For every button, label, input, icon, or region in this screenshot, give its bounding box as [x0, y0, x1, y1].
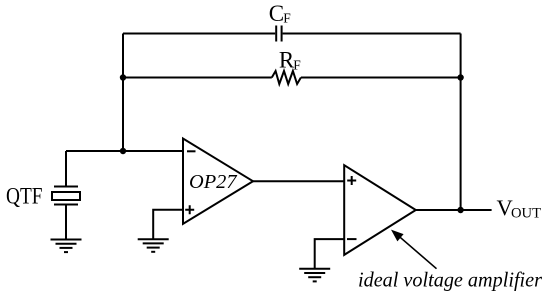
label VOUT	[497, 195, 542, 222]
arrow head	[391, 230, 404, 242]
wire: left feedback vertical	[122, 34, 124, 152]
node junction dot (right, Rf)	[457, 74, 463, 80]
wire: top feedback wire right segment (Cf branch)	[283, 33, 461, 35]
svg-text:OUT: OUT	[511, 205, 541, 221]
wire: QTF top lead	[65, 151, 67, 187]
wire: top feedback wire left segment (Cf branch)	[123, 33, 275, 35]
svg-text:ideal voltage amplifier: ideal voltage amplifier	[358, 268, 543, 292]
ground (amplifier minus input)	[299, 269, 330, 282]
node junction dot (left, Rf)	[120, 74, 126, 80]
crystal QTF top plate	[54, 186, 78, 188]
ground (below QTF)	[51, 240, 82, 253]
wire: Rf branch left segment	[123, 77, 272, 79]
svg-text:F: F	[283, 10, 291, 25]
svg-text:F: F	[293, 57, 301, 72]
op-amp U1 OP27 triangle	[183, 139, 253, 224]
amplifier plus input sign	[347, 176, 356, 185]
label RF	[279, 47, 301, 72]
svg-text:C: C	[269, 1, 284, 26]
wire: input node horizontal (QTF to OP27 inverting input)	[66, 150, 183, 152]
wire: output to Vout	[416, 209, 492, 211]
wire: right feedback vertical	[460, 34, 462, 211]
capacitor CF left plate	[275, 26, 277, 42]
svg-text:QTF: QTF	[6, 184, 43, 209]
svg-text:OP27: OP27	[189, 171, 237, 193]
arrow pointer line to amplifier	[399, 236, 437, 268]
crystal QTF body rectangle	[52, 192, 80, 200]
wire: QTF bottom lead	[65, 205, 67, 240]
crystal QTF bottom plate	[54, 204, 78, 206]
wire: OP27 plus input to ground	[153, 210, 183, 239]
wire: amplifier minus input to ground	[315, 239, 345, 269]
wire: OP27 output to amplifier input	[253, 180, 344, 182]
label CF	[269, 1, 292, 26]
OP27 non-inverting input plus sign	[185, 205, 194, 214]
OP27 inverting input minus sign	[187, 150, 196, 152]
wire: Rf branch right segment	[301, 77, 461, 79]
amplifier U2 ideal voltage amplifier triangle	[344, 165, 416, 255]
amplifier minus input sign	[347, 238, 357, 240]
node junction dot (input node)	[120, 148, 126, 154]
node junction dot (output node)	[457, 207, 463, 213]
capacitor CF right plate	[281, 26, 283, 42]
resistor RF zigzag	[272, 71, 301, 84]
ground (OP27 non-inverting input)	[138, 239, 169, 252]
